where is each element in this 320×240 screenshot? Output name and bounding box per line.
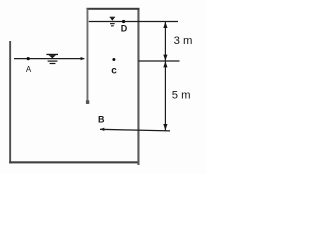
partition bottom tip — [86, 100, 89, 104]
dimension arrowhead down at C level — [163, 55, 167, 61]
outer tank left wall — [9, 41, 11, 164]
water surface symbol right hatch 1 — [110, 23, 115, 24]
node A dot — [27, 57, 30, 60]
dimension arrowhead up at D level — [163, 22, 167, 28]
svg-text:5 m: 5 m — [172, 90, 191, 102]
wire: inner tank water-surface line through D, extended right — [89, 21, 178, 23]
svg-text:c: c — [111, 66, 117, 77]
svg-text:3 m: 3 m — [174, 35, 193, 47]
dimension vertical line (3 m and 5 m) — [164, 22, 166, 131]
tank right wall — [137, 8, 139, 165]
svg-text:A: A — [26, 65, 32, 74]
water surface symbol left (nabla) top bar — [46, 54, 58, 55]
wire: line at B level — [100, 129, 170, 131]
water surface symbol left hatch 2 — [50, 63, 56, 64]
dimension arrowhead down at B level — [163, 124, 167, 130]
inner tank partition wall (left) — [87, 9, 89, 105]
wire: left water-surface line through A — [14, 58, 84, 60]
arrowhead right end of A line — [81, 57, 85, 60]
svg-text:B: B — [98, 115, 105, 125]
inner tank top wall — [86, 8, 139, 10]
water surface symbol left triangle — [49, 55, 56, 58]
svg-text:D: D — [121, 24, 128, 34]
node D dot — [122, 20, 125, 23]
water surface symbol right (nabla) top bar — [110, 17, 115, 18]
water surface symbol left hatch 1 — [48, 61, 58, 62]
water surface symbol right triangle — [110, 18, 114, 21]
outer tank bottom wall — [9, 161, 139, 163]
water surface symbol right hatch 2 — [111, 25, 114, 26]
node C dot — [112, 58, 115, 61]
dimension arrowhead up at C level — [163, 61, 167, 67]
wire: extension line at C level — [139, 60, 180, 62]
arrowhead left end of B line — [100, 128, 104, 131]
